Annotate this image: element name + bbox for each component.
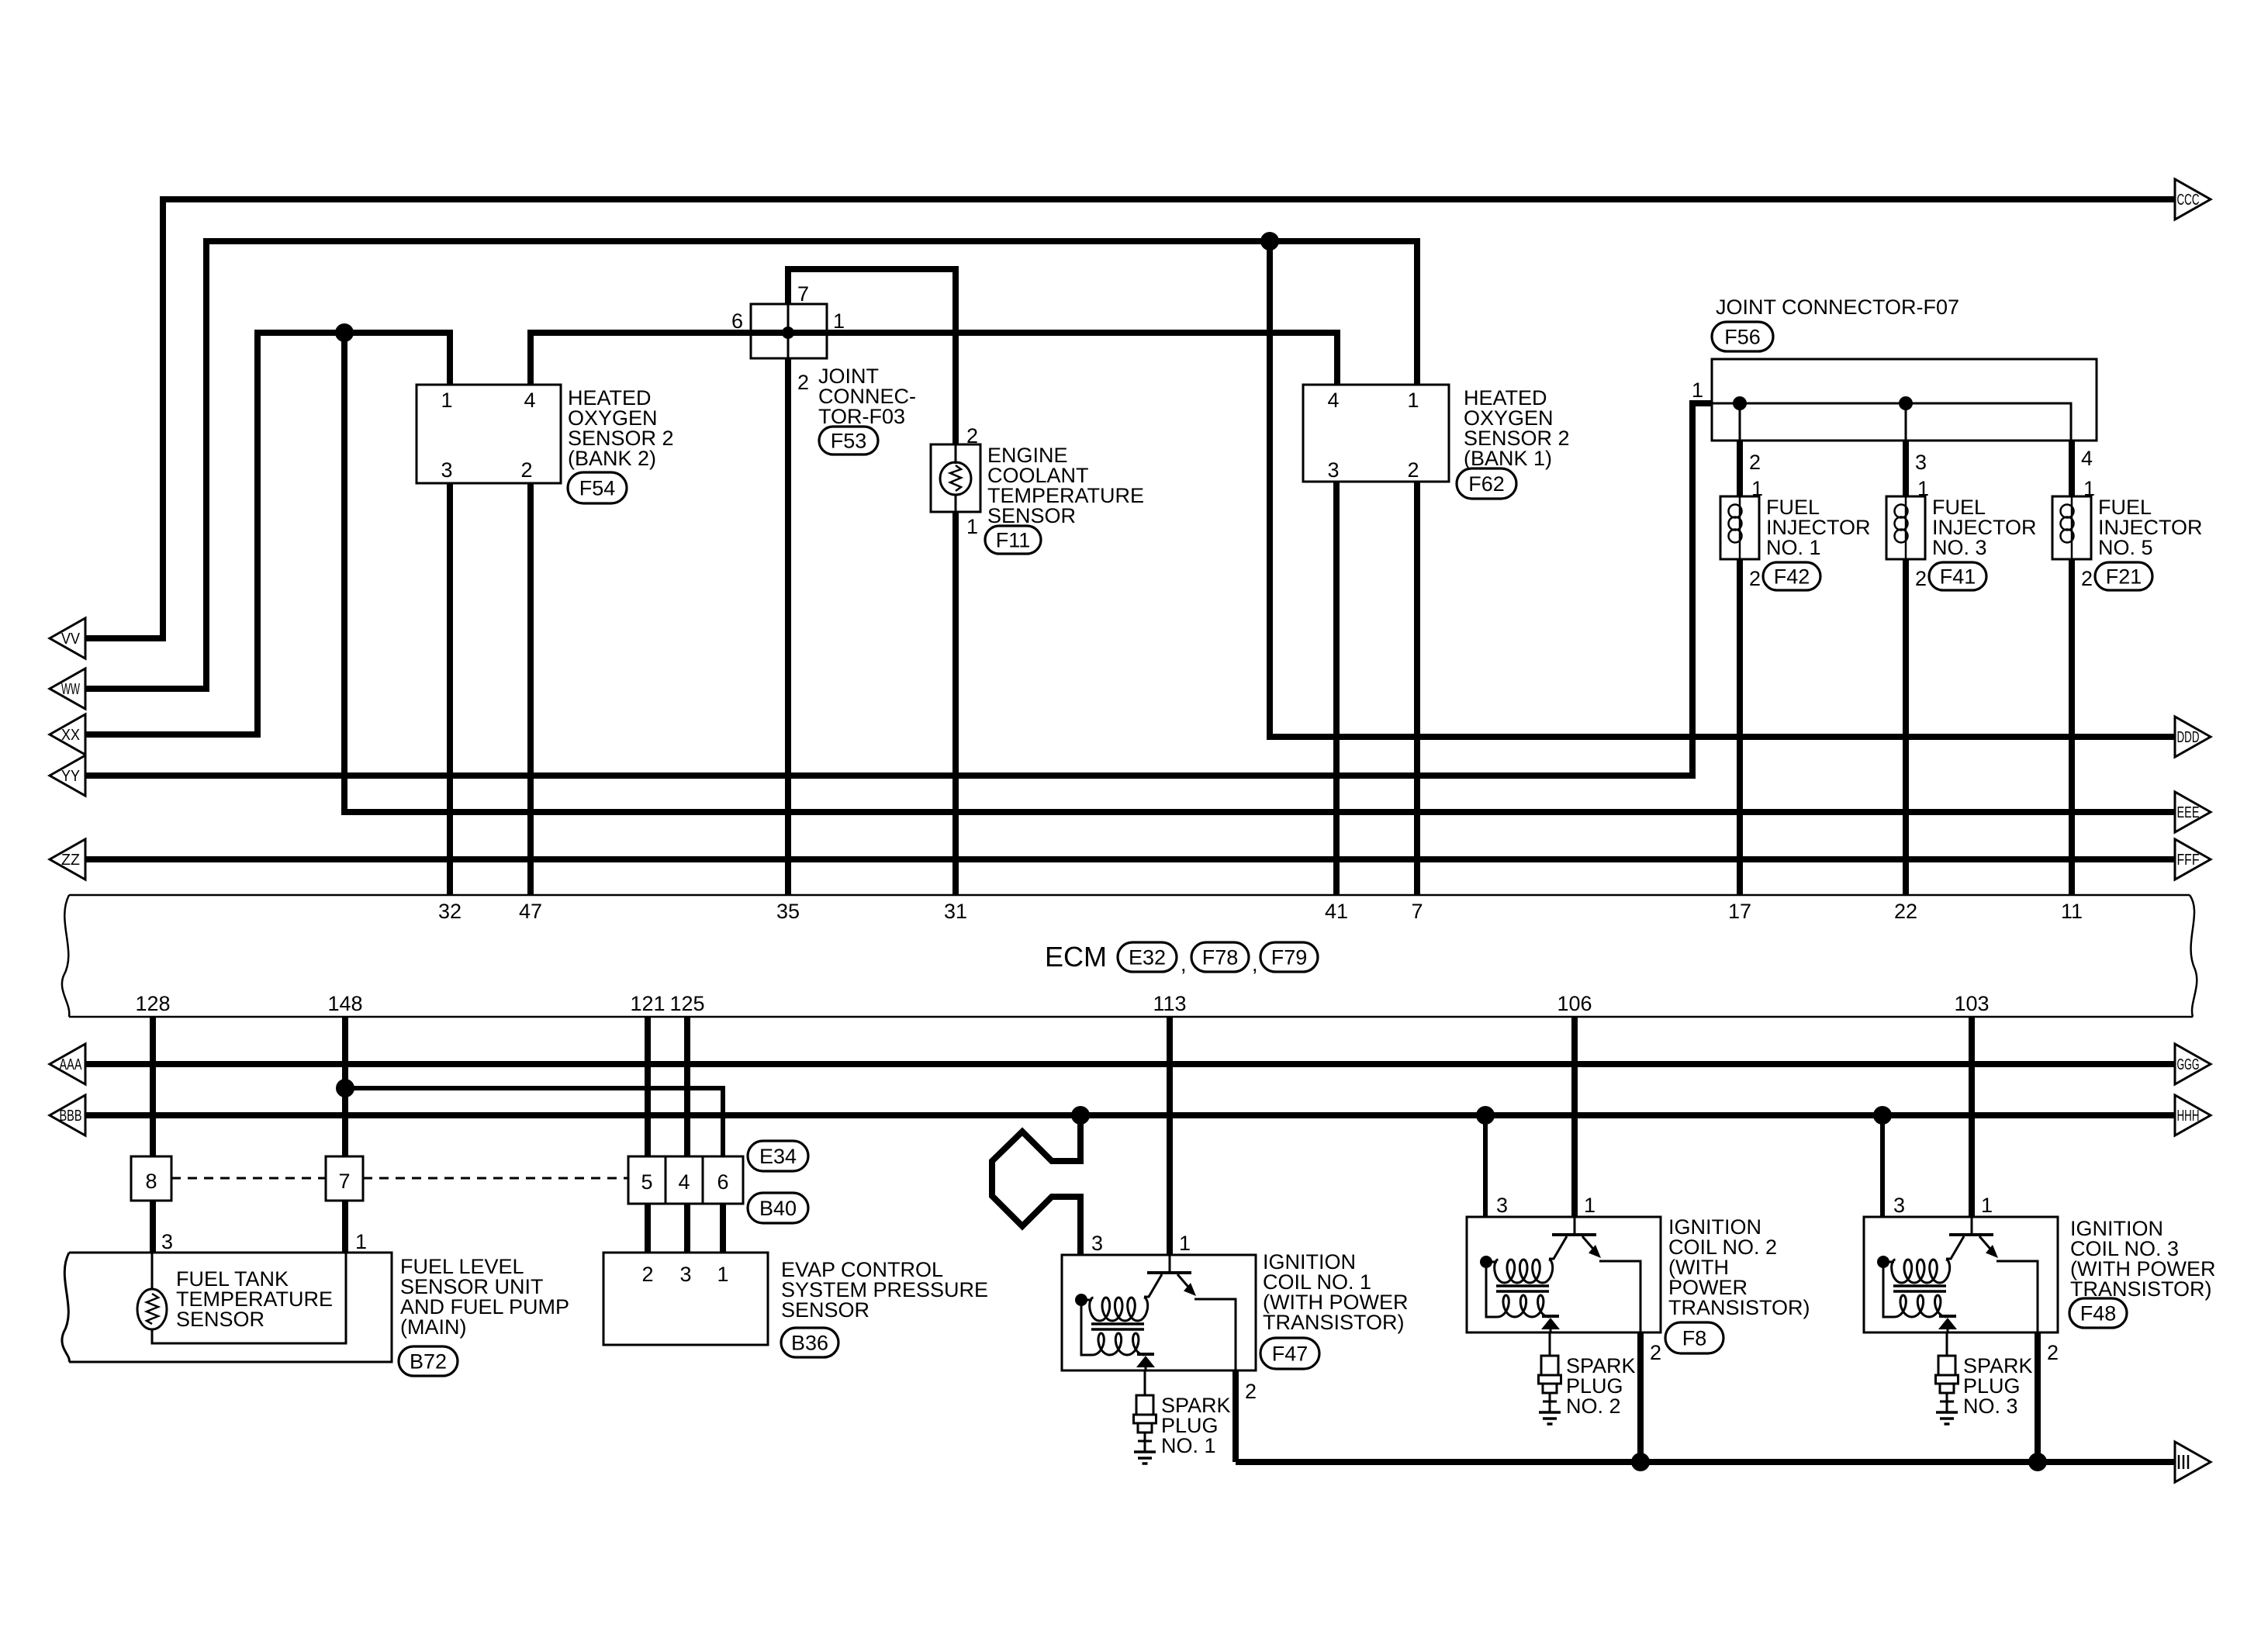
svg-text:7: 7: [338, 1170, 350, 1193]
wire F42 pin2 to ECM: [1737, 559, 1743, 895]
oval F62: [1457, 468, 1516, 499]
svg-text:F8: F8: [1682, 1327, 1707, 1350]
svg-text:2: 2: [2081, 567, 2093, 590]
arrow III: [2175, 1442, 2211, 1482]
svg-text:F41: F41: [1940, 565, 1976, 589]
svg-text:1: 1: [355, 1230, 367, 1253]
B72 thermistor zigzag: [147, 1294, 158, 1324]
junction HHH to coil2 pin3: [1476, 1106, 1495, 1125]
wire ECM 128 to connector 8: [150, 1017, 156, 1156]
wire ECT pin1 to ECM 31: [952, 512, 959, 895]
arrow AAA: [50, 1044, 85, 1084]
wire box7 to B72 pin1: [342, 1201, 348, 1253]
wire F62 pin2 to ECM 7: [1414, 482, 1420, 895]
svg-text:3: 3: [1091, 1232, 1103, 1255]
svg-text:SENSOR: SENSOR: [987, 504, 1076, 527]
svg-text:F11: F11: [996, 529, 1031, 552]
wire BBB-HHH net: [85, 1112, 2175, 1118]
svg-text:1: 1: [1584, 1194, 1595, 1217]
oval F56: [1712, 322, 1773, 351]
svg-text:1: 1: [1407, 389, 1419, 412]
svg-text:22: 22: [1894, 900, 1917, 923]
connector F62 HO2S bank1: [1303, 385, 1449, 482]
spark plug no.3: [1936, 1356, 1958, 1424]
wire F53 pin2 to ECM 35: [785, 358, 791, 895]
svg-text:JOINT CONNECTOR-F07: JOINT CONNECTOR-F07: [1716, 295, 1959, 319]
wire coil2 pin2 to III: [1637, 1332, 1644, 1462]
arrow FFF: [2175, 839, 2211, 880]
svg-text:E32: E32: [1129, 946, 1166, 969]
wire YY to F56 pin1: [85, 403, 1712, 776]
F56 inner bus: [1712, 403, 2071, 441]
svg-text:(BANK 1): (BANK 1): [1464, 447, 1552, 470]
wire coil3 pin2 to III: [2035, 1332, 2041, 1462]
wire F21 pin2 to ECM: [2069, 559, 2075, 895]
svg-text:2: 2: [1749, 451, 1761, 474]
svg-text:3: 3: [161, 1230, 173, 1253]
svg-text:DDD: DDD: [2177, 729, 2200, 746]
wire coil1 pin2 to III: [1232, 1370, 1239, 1462]
svg-text:F79: F79: [1271, 946, 1308, 969]
wire F56 pin3 to injector3: [1903, 441, 1909, 496]
F56 inner drop pin3: [1905, 403, 1907, 441]
wire WW to F62 pin1: [85, 241, 1417, 689]
wire XX to F54 pin1: [85, 333, 450, 734]
joint connector F53 box: [751, 304, 827, 358]
svg-text:103: 103: [1954, 992, 1989, 1015]
ECT inner lead bottom: [955, 494, 957, 512]
svg-text:(BANK 2): (BANK 2): [568, 447, 656, 470]
connector box 8 (B72): [131, 1156, 171, 1201]
svg-text:EEE: EEE: [2177, 804, 2200, 821]
ECT thermistor circle: [940, 462, 971, 495]
oval B36: [781, 1328, 838, 1357]
svg-text:AAA: AAA: [60, 1056, 82, 1073]
ECM band left torn edge: [62, 895, 69, 1017]
arrow DDD: [2175, 717, 2211, 757]
svg-text:WW: WW: [61, 681, 80, 698]
svg-text:41: 41: [1325, 900, 1348, 923]
arrow EEE: [2175, 792, 2211, 832]
fuel injector F21 body: [2052, 496, 2091, 559]
wire F54 pin2 to ECM 47: [527, 483, 534, 895]
wire cell4 to B36 pin3: [684, 1204, 690, 1253]
svg-text:1: 1: [833, 309, 845, 333]
wire AAA-GGG net: [85, 1061, 2175, 1067]
arrow WW: [50, 669, 85, 709]
junction on WW line: [1260, 232, 1279, 251]
oval F47: [1260, 1338, 1319, 1369]
oval F54: [568, 472, 627, 503]
wire ZZ-FFF net: [85, 856, 2175, 862]
F42 inner wire: [1739, 496, 1741, 559]
svg-text:7: 7: [797, 282, 809, 306]
svg-text:2: 2: [1915, 567, 1927, 590]
fuel tank temperature sensor inner box: [152, 1253, 346, 1343]
oval F42: [1763, 562, 1820, 590]
oval F48: [2069, 1298, 2127, 1328]
svg-text:GGG: GGG: [2177, 1056, 2200, 1073]
svg-text:3: 3: [1496, 1194, 1508, 1217]
svg-text:F47: F47: [1272, 1343, 1309, 1366]
spark plug no.2: [1539, 1356, 1561, 1424]
oval B72: [399, 1346, 458, 1376]
svg-text:B72: B72: [410, 1350, 447, 1374]
connector cell 6 (E34/B40): [703, 1156, 743, 1204]
svg-text:106: 106: [1557, 992, 1592, 1015]
svg-text:1: 1: [441, 389, 452, 412]
ignition coil no.1 F47: [1062, 1255, 1256, 1370]
svg-text:2: 2: [1245, 1380, 1257, 1403]
oval B40: [748, 1193, 808, 1223]
wire F41 pin2 to ECM: [1903, 559, 1909, 895]
oval E32: [1118, 942, 1177, 972]
svg-text:4: 4: [2081, 447, 2093, 470]
fuel injector F42 body: [1720, 496, 1759, 559]
arrow XX: [50, 714, 85, 755]
svg-text:SENSOR: SENSOR: [176, 1308, 264, 1331]
svg-text:6: 6: [717, 1170, 728, 1194]
wire III ground net: [1236, 1459, 2175, 1465]
svg-text:2: 2: [2047, 1341, 2059, 1364]
svg-text:32: 32: [438, 900, 462, 923]
svg-text:CCC: CCC: [2177, 192, 2200, 209]
wire ECM 113 to coil1 pin1: [1167, 1017, 1173, 1255]
svg-text:1: 1: [1981, 1194, 1993, 1217]
svg-text:3: 3: [1893, 1194, 1905, 1217]
svg-text:TRANSISTOR): TRANSISTOR): [1668, 1296, 1810, 1319]
dashed connector link 8-7: [171, 1177, 326, 1180]
svg-text:F78: F78: [1202, 946, 1239, 969]
svg-text:3: 3: [679, 1263, 691, 1286]
wire F54 pin4 to F62 pin4: [531, 333, 1337, 385]
svg-text:2: 2: [1749, 567, 1761, 590]
svg-text:B40: B40: [759, 1197, 797, 1220]
fuel injector F41 body: [1886, 496, 1925, 559]
junction HHH to coil3 pin3: [1873, 1106, 1892, 1125]
B72 torn left edge: [62, 1253, 69, 1362]
svg-text:1: 1: [1179, 1232, 1191, 1255]
svg-text:31: 31: [944, 900, 967, 923]
F42 coil loops: [1729, 505, 1742, 518]
svg-text:121: 121: [630, 992, 665, 1015]
svg-text:5: 5: [641, 1170, 652, 1194]
svg-text:SENSOR: SENSOR: [781, 1298, 869, 1322]
svg-text:2: 2: [797, 371, 809, 394]
oval F8: [1665, 1322, 1723, 1353]
wire VV-CCC net: [85, 199, 2175, 638]
svg-text:17: 17: [1728, 900, 1751, 923]
svg-text:35: 35: [776, 900, 800, 923]
svg-text:1: 1: [966, 515, 978, 538]
junction coil2 on III: [1631, 1453, 1650, 1471]
wire ECM 121 to E34 pin5: [645, 1017, 651, 1156]
svg-text:F62: F62: [1468, 472, 1505, 496]
engine coolant temp sensor body: [931, 444, 980, 512]
wire F54 pin3 to ECM 32: [447, 483, 453, 895]
wire ECM 148 to connector 7: [342, 1017, 348, 1156]
svg-text:1: 1: [1692, 378, 1703, 402]
ECM band right torn edge: [2190, 895, 2197, 1017]
ignition coil no.2 F8: [1467, 1217, 1661, 1332]
svg-text:TRANSISTOR): TRANSISTOR): [1263, 1311, 1405, 1334]
wire HHH to coil3 pin3: [1880, 1115, 1885, 1217]
wire HHH to coil2 pin3: [1483, 1115, 1488, 1217]
svg-text:(MAIN): (MAIN): [400, 1315, 466, 1339]
svg-text:,: ,: [1181, 952, 1187, 976]
svg-text:47: 47: [519, 900, 542, 923]
svg-text:8: 8: [145, 1170, 157, 1193]
wire F56 pin2 to injector1: [1737, 441, 1743, 496]
svg-text:NO. 5: NO. 5: [2098, 536, 2153, 559]
junction on pin148 drop: [336, 1079, 354, 1097]
F41 inner wire: [1905, 496, 1907, 559]
wire coil1 diode to spark plug 1: [1144, 1370, 1146, 1395]
svg-text:7: 7: [1411, 900, 1423, 923]
joint connector F56 box: [1712, 359, 2097, 441]
svg-text:B36: B36: [791, 1332, 828, 1355]
ECT inner lead top: [955, 444, 957, 464]
svg-text:NO. 1: NO. 1: [1161, 1434, 1216, 1457]
svg-text:F21: F21: [2106, 565, 2142, 589]
F56 inner junction pin2: [1733, 396, 1747, 410]
oval F41: [1929, 562, 1986, 590]
wire F53 pin7 to ECT pin2: [788, 269, 956, 444]
oval E34: [748, 1141, 808, 1171]
wire EEE branch: [344, 333, 2175, 812]
wire ECM 106 to coil2 pin1: [1571, 1017, 1578, 1217]
svg-text:148: 148: [327, 992, 362, 1015]
svg-text:2: 2: [1407, 458, 1419, 482]
svg-text:3: 3: [1915, 451, 1927, 474]
oval F53: [819, 427, 878, 454]
svg-text:FFF: FFF: [2177, 852, 2200, 869]
arrow YY: [50, 755, 85, 796]
wire box8 to B72 pin3: [150, 1201, 156, 1253]
connector cell 5 (E34/B40): [628, 1156, 666, 1204]
svg-text:1: 1: [717, 1263, 728, 1286]
oval F78: [1191, 942, 1249, 972]
wire ECM 103 to coil3 pin1: [1969, 1017, 1975, 1217]
dashed connector link 7-E34: [363, 1177, 628, 1180]
svg-text:F53: F53: [831, 430, 867, 453]
svg-text:4: 4: [1327, 389, 1339, 412]
ignition coil no.3 F48: [1864, 1217, 2058, 1332]
svg-text:F48: F48: [2080, 1302, 2117, 1325]
svg-text:,: ,: [1252, 952, 1258, 976]
arrow CCC: [2175, 179, 2211, 219]
B72 thermistor ellipse: [137, 1289, 167, 1329]
oval F79: [1260, 942, 1318, 972]
F53 inner divider: [787, 304, 790, 358]
F56 inner junction pin3: [1899, 396, 1913, 410]
svg-text:ZZ: ZZ: [61, 852, 80, 869]
wire coil3 diode to spark plug 3: [1946, 1332, 1948, 1356]
F41 coil loops: [1895, 505, 1908, 518]
svg-text:4: 4: [524, 389, 535, 412]
EVAP pressure sensor box B36: [603, 1253, 768, 1345]
svg-text:HHH: HHH: [2177, 1108, 2200, 1125]
ECM band bottom edge: [69, 1016, 2193, 1018]
ECM band top edge: [69, 894, 2190, 897]
svg-text:113: 113: [1153, 992, 1186, 1015]
svg-text:NO. 2: NO. 2: [1566, 1395, 1621, 1418]
svg-text:XX: XX: [61, 727, 80, 744]
wire coil2 diode to spark plug 2: [1549, 1332, 1551, 1356]
arrow HHH: [2175, 1095, 2211, 1135]
wire DDD branch: [1270, 241, 2175, 737]
F53 center junction: [782, 327, 794, 339]
svg-text:2: 2: [1650, 1341, 1661, 1364]
wire ECM 125 to E34 pin4: [684, 1017, 690, 1156]
svg-text:1: 1: [1751, 477, 1763, 500]
wire cell5 to B36 pin2: [645, 1204, 651, 1253]
svg-text:2: 2: [966, 424, 978, 448]
wire cell6 to B36 pin1: [720, 1204, 726, 1253]
junction on XX branch line: [335, 323, 354, 342]
svg-text:2: 2: [520, 458, 532, 482]
svg-text:NO. 3: NO. 3: [1932, 536, 1987, 559]
connector F54 HO2S bank2: [417, 385, 561, 483]
svg-text:1: 1: [2083, 477, 2095, 500]
F21 coil loops: [2061, 505, 2074, 518]
svg-text:4: 4: [678, 1170, 690, 1194]
svg-text:125: 125: [669, 992, 704, 1015]
F56 inner drop pin2: [1739, 403, 1741, 441]
svg-text:1: 1: [1917, 477, 1929, 500]
arrow GGG: [2175, 1044, 2211, 1084]
wire F62 pin3 to ECM 41: [1333, 482, 1340, 895]
arrow BBB: [50, 1095, 85, 1135]
wire F56 pin4 to injector5: [2069, 441, 2075, 496]
svg-text:F42: F42: [1774, 565, 1810, 589]
F21 inner wire: [2071, 496, 2073, 559]
svg-text:11: 11: [2061, 900, 2083, 923]
junction BBB pigtail: [1071, 1106, 1090, 1125]
pigtail loop symbol: [992, 1115, 1080, 1255]
connector cell 4 (E34/B40): [666, 1156, 703, 1204]
svg-text:ECM: ECM: [1045, 941, 1107, 973]
wire 148 branch to E34 pin6: [345, 1088, 723, 1156]
connector box 7 (B72): [326, 1156, 363, 1201]
ECT zigzag: [950, 465, 961, 491]
oval F11: [985, 526, 1041, 554]
svg-text:3: 3: [1327, 458, 1339, 482]
svg-text:NO. 1: NO. 1: [1766, 536, 1821, 559]
svg-text:6: 6: [731, 309, 743, 333]
oval F21: [2095, 562, 2152, 590]
svg-text:3: 3: [441, 458, 452, 482]
arrow ZZ: [50, 839, 85, 880]
svg-text:VV: VV: [61, 631, 81, 648]
svg-text:F56: F56: [1724, 326, 1761, 349]
spark plug no.1: [1134, 1395, 1156, 1464]
fuel level sensor unit outer box B72: [69, 1253, 392, 1362]
svg-text:128: 128: [135, 992, 170, 1015]
svg-text:2: 2: [641, 1263, 653, 1286]
arrow VV: [50, 618, 85, 658]
svg-text:E34: E34: [759, 1145, 797, 1168]
svg-text:NO. 3: NO. 3: [1963, 1395, 2018, 1418]
svg-text:BBB: BBB: [60, 1108, 82, 1125]
svg-text:F54: F54: [579, 477, 616, 500]
junction coil3 on III: [2028, 1453, 2047, 1471]
svg-text:TOR-F03: TOR-F03: [818, 405, 905, 428]
svg-text:YY: YY: [61, 768, 80, 785]
